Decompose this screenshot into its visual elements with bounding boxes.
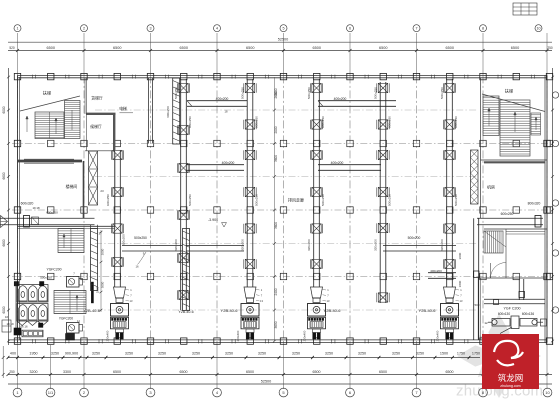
svg-text:3250: 3250	[392, 352, 400, 356]
svg-text:YGF C200: YGF C200	[504, 307, 521, 311]
striped riser duct x=176	[173, 78, 180, 144]
supply duct riser x=183.5	[180, 79, 182, 310]
svg-text:400: 400	[10, 352, 16, 356]
small dim chain x=101	[100, 230, 102, 312]
svg-text:600x136: 600x136	[522, 312, 534, 316]
right wall	[544, 75, 546, 342]
svg-text:800x320: 800x320	[528, 202, 541, 206]
svg-text:筑龙网: 筑龙网	[498, 373, 524, 383]
svg-text:600x250: 600x250	[166, 106, 170, 118]
bottom axis circles	[13, 388, 22, 397]
svg-text:排风走廊: 排风走廊	[288, 197, 304, 203]
supply duct riser x=250	[246, 79, 248, 287]
escalator top-left	[20, 96, 80, 139]
right vertical dimension line	[552, 68, 554, 345]
svg-text:3250: 3250	[125, 352, 133, 356]
svg-text:2: 2	[83, 27, 85, 31]
svg-text:16: 16	[5, 315, 9, 319]
svg-text:1500: 1500	[440, 352, 448, 356]
svg-text:3000: 3000	[458, 252, 462, 259]
left vertical dimension line	[8, 68, 10, 345]
svg-text:3000: 3000	[101, 281, 105, 288]
right axis circles	[552, 92, 558, 98]
svg-text:500x250: 500x250	[388, 194, 392, 206]
svg-text:6500: 6500	[246, 46, 254, 50]
svg-text:1750: 1750	[457, 352, 465, 356]
svg-text:Y2B-40-6: Y2B-40-6	[221, 308, 239, 313]
svg-text:500: 500	[474, 303, 479, 307]
svg-text:250: 250	[547, 46, 553, 50]
svg-text:500x250: 500x250	[321, 194, 325, 206]
internal dim chain x=274.5	[274, 77, 276, 341]
svg-text:10: 10	[545, 390, 550, 395]
svg-text:500x250: 500x250	[134, 236, 147, 240]
svg-text:机房: 机房	[487, 184, 495, 190]
svg-text:6500: 6500	[379, 46, 387, 50]
axis-3 shaft wall	[147, 78, 149, 144]
svg-text:4: 4	[216, 27, 218, 31]
red zhulong logo box	[482, 334, 539, 389]
svg-text:500x200: 500x200	[408, 236, 421, 240]
svg-text:16: 16	[135, 265, 139, 269]
svg-text:600x250: 600x250	[46, 211, 58, 215]
svg-text:6: 6	[349, 27, 351, 31]
svg-text:400x200: 400x200	[334, 97, 347, 101]
svg-text:货梯厅: 货梯厅	[91, 96, 103, 101]
svg-text:-3.900: -3.900	[208, 218, 218, 222]
svg-text:10: 10	[536, 27, 540, 31]
free standing columns	[48, 140, 54, 146]
svg-text:500x250: 500x250	[307, 87, 311, 99]
svg-text:500x250: 500x250	[40, 276, 52, 280]
svg-text:6000: 6000	[2, 106, 6, 113]
svg-text:500x250: 500x250	[440, 87, 444, 99]
svg-text:6500: 6500	[313, 46, 321, 50]
top-right room walls	[480, 78, 482, 160]
svg-text:3300: 3300	[63, 370, 71, 374]
svg-text:6500: 6500	[246, 370, 254, 374]
bottom 6500 dimension line	[8, 374, 552, 376]
svg-text:5: 5	[282, 27, 284, 31]
svg-text:520: 520	[9, 46, 15, 50]
svg-text:18: 18	[225, 110, 228, 114]
svg-text:6500: 6500	[379, 370, 387, 374]
svg-text:400x200: 400x200	[216, 97, 229, 101]
svg-text:320x200: 320x200	[307, 239, 311, 251]
svg-text:320x200: 320x200	[440, 239, 444, 251]
svg-text:3200: 3200	[30, 370, 38, 374]
landing wall lines right room	[506, 231, 545, 233]
hatched riser duct x=94	[91, 229, 98, 291]
elbow entry duct to riser	[90, 225, 92, 229]
svg-text:Y2B-40-6: Y2B-40-6	[419, 308, 437, 313]
lift lobby walls	[86, 113, 116, 115]
svg-text:8: 8	[482, 27, 484, 31]
top-right corner table	[513, 3, 537, 15]
bottom total dimension line 52500	[8, 383, 552, 385]
svg-text:1: 1	[16, 27, 18, 31]
svg-text:320x200: 320x200	[122, 234, 126, 246]
wall midspan tick marks	[32, 75, 34, 79]
top segment dimension line 6500s	[8, 50, 552, 52]
svg-text:6500: 6500	[113, 46, 121, 50]
svg-text:3600: 3600	[274, 155, 278, 162]
top wall	[18, 74, 548, 76]
svg-text:600x130: 600x130	[498, 312, 510, 316]
svg-text:66 16: 66 16	[21, 325, 28, 329]
svg-text:扶梯: 扶梯	[43, 90, 51, 97]
svg-text:6500: 6500	[47, 46, 55, 50]
svg-text:250: 250	[9, 370, 15, 374]
svg-text:19 18: 19 18	[33, 206, 40, 210]
svg-text:600x250: 600x250	[454, 116, 458, 128]
svg-text:3250: 3250	[225, 352, 233, 356]
svg-text:600x320: 600x320	[21, 202, 34, 206]
stair flight 2 lower	[54, 291, 86, 314]
svg-text:2000: 2000	[101, 248, 105, 255]
svg-text:zhulong.com: zhulong.com	[500, 384, 520, 388]
svg-text:候梯厅: 候梯厅	[90, 124, 102, 129]
top axis circles	[14, 25, 21, 32]
svg-text:3250: 3250	[192, 352, 200, 356]
upper branch ducts y=103	[187, 100, 247, 102]
svg-text:200x400: 200x400	[303, 330, 307, 341]
lower branch ducts y=245.5	[122, 244, 182, 246]
bay2 duct riser x=117.5	[114, 151, 116, 288]
svg-text:3250: 3250	[358, 352, 366, 356]
svg-text:320x200: 320x200	[241, 239, 245, 251]
svg-text:500x250: 500x250	[454, 194, 458, 206]
svg-text:17: 17	[98, 232, 102, 236]
svg-text:电梯: 电梯	[119, 106, 127, 111]
X-shaft left (88.5,151)-(97.5,205)	[89, 151, 98, 205]
svg-text:600x250: 600x250	[501, 212, 514, 216]
svg-text:2400: 2400	[274, 288, 278, 295]
svg-text:3250: 3250	[51, 352, 59, 356]
svg-text:320x200: 320x200	[374, 239, 378, 251]
svg-text:6500: 6500	[113, 370, 121, 374]
svg-text:320x200: 320x200	[174, 239, 178, 251]
supply duct riser x=316.5	[313, 79, 315, 287]
svg-text:7: 7	[415, 27, 417, 31]
svg-text:3250: 3250	[416, 352, 424, 356]
svg-text:Y2B-40-6: Y2B-40-6	[324, 308, 342, 313]
supply duct riser x=383	[379, 82, 381, 303]
svg-text:1800: 1800	[458, 280, 462, 287]
stair flight 1	[58, 229, 84, 253]
svg-text:6500: 6500	[180, 46, 188, 50]
svg-text:楼梯间: 楼梯间	[66, 184, 78, 189]
left entry duct y=221	[0, 217, 95, 219]
svg-text:400x200: 400x200	[331, 161, 344, 165]
short branch y=275.5	[428, 272, 456, 274]
svg-text:400x200: 400x200	[222, 161, 235, 165]
door arc right room	[491, 263, 507, 279]
bottom fine dimension line	[8, 357, 480, 359]
svg-text:3650: 3650	[274, 321, 278, 328]
svg-text:3600: 3600	[274, 222, 278, 229]
svg-text:3: 3	[149, 27, 151, 31]
svg-text:1/1: 1/1	[48, 390, 54, 395]
svg-text:500x250: 500x250	[374, 87, 378, 99]
svg-text:200x400: 200x400	[236, 330, 240, 341]
svg-text:2600: 2600	[274, 91, 278, 98]
svg-text:3250: 3250	[158, 352, 166, 356]
left mid wall y=227	[18, 225, 116, 227]
grid axis vertical leader lines	[17, 33, 19, 75]
X-striped shaft right	[471, 150, 479, 204]
svg-text:YGFC200: YGFC200	[59, 317, 73, 321]
svg-text:600x250: 600x250	[106, 194, 110, 206]
svg-text:12: 12	[484, 321, 488, 325]
svg-text:3250: 3250	[292, 352, 300, 356]
svg-text:6000: 6000	[2, 306, 6, 313]
middle branch ducts y=170	[186, 164, 244, 166]
watermark star logo	[457, 314, 541, 398]
svg-text:6500: 6500	[180, 370, 188, 374]
right entry duct y=221	[477, 217, 543, 219]
small left vertical dim	[2, 346, 4, 378]
svg-text:200x400: 200x400	[106, 330, 110, 341]
svg-text:3250: 3250	[92, 352, 100, 356]
svg-text:500x250: 500x250	[188, 194, 192, 206]
svg-text:6500: 6500	[313, 370, 321, 374]
fan unit Y2B-40-6 at x=316.5	[311, 287, 323, 298]
escalator top-right	[482, 94, 545, 156]
svg-text:6500: 6500	[511, 46, 519, 50]
svg-text:3250: 3250	[325, 352, 333, 356]
svg-text:500x250: 500x250	[241, 87, 245, 99]
svg-text:2000: 2000	[274, 126, 278, 133]
svg-text:6600: 6600	[2, 239, 6, 246]
svg-text:52500: 52500	[261, 379, 272, 383]
left and right wall columns	[14, 140, 20, 146]
left wall	[17, 75, 19, 342]
column boxes top and bottom walls	[14, 73, 20, 79]
svg-text:200x400: 200x400	[436, 330, 440, 341]
svg-text:3250: 3250	[258, 352, 266, 356]
right room horizontal duct y=301	[484, 298, 545, 300]
svg-text:6600: 6600	[2, 172, 6, 179]
top-left room walls	[18, 160, 83, 163]
axis-2 wall lines	[85, 78, 87, 151]
svg-text:600x250: 600x250	[255, 116, 259, 128]
svg-text:600x250: 600x250	[188, 116, 192, 128]
top total dimension line 52500	[8, 41, 552, 43]
bottom wall	[8, 339, 547, 341]
dark box below fan	[66, 334, 75, 341]
svg-text:18 19: 18 19	[7, 322, 14, 326]
hatched riser duct x=186 low	[183, 229, 190, 311]
svg-text:1750: 1750	[472, 352, 480, 356]
bottom-right room walls	[477, 278, 479, 340]
svg-text:扶梯: 扶梯	[505, 88, 513, 95]
fan unit Y2B-40-6 at x=250	[244, 287, 256, 298]
right entry elbow duct down	[473, 218, 475, 340]
svg-text:500x250: 500x250	[255, 194, 259, 206]
supply duct riser x=449.5	[446, 79, 448, 287]
right room vertical duct x=521.5	[518, 279, 520, 300]
svg-text:6500: 6500	[446, 370, 454, 374]
right wall pilaster	[541, 319, 547, 326]
fan unit upper YGFC200	[67, 277, 80, 288]
svg-text:600x250: 600x250	[321, 116, 325, 128]
svg-text:6500: 6500	[446, 46, 454, 50]
svg-text:1950: 1950	[29, 352, 37, 356]
fan unit Y2B-40-6 at x=119.5	[114, 287, 126, 298]
svg-text:400x200: 400x200	[430, 269, 442, 273]
left edge arrow symbol	[1, 216, 8, 228]
black bar in riser x=94	[91, 282, 93, 303]
svg-text:52500: 52500	[278, 38, 289, 42]
svg-text:YGFC200: YGFC200	[46, 267, 61, 271]
fan unit Y2B-40-6 at x=449.5	[444, 287, 456, 298]
dark dampers bottom-left	[14, 328, 21, 335]
svg-text:900,900: 900,900	[65, 352, 78, 356]
horizontal centerlines	[12, 143, 548, 145]
svg-text:600x250: 600x250	[388, 116, 392, 128]
svg-text:23: 23	[100, 189, 104, 193]
bottom-left AHU cluster	[17, 285, 48, 326]
right stair small	[484, 231, 506, 253]
